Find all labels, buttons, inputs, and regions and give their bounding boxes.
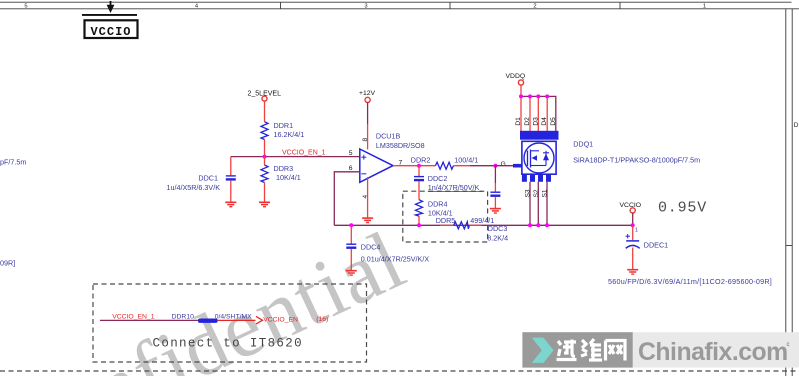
capacitor DDC4 — [346, 225, 429, 270]
svg-text:2: 2 — [533, 4, 536, 10]
wire VCCIO_EN_1 bottom — [100, 319, 198, 321]
svg-text:VDDQ: VDDQ — [506, 73, 526, 80]
source pin wires — [530, 182, 547, 226]
drain pin wires D1-D4 — [521, 96, 547, 131]
svg-text:VCCIO: VCCIO — [620, 202, 642, 209]
svg-text:0.01u/4/X7R/25V/K/X: 0.01u/4/X7R/25V/K/X — [361, 255, 430, 264]
svg-text:VCCIO: VCCIO — [90, 25, 131, 39]
svg-text:Chinafix.com: Chinafix.com — [638, 339, 788, 366]
svg-text:+12V: +12V — [359, 90, 376, 97]
wire pin4 to ground — [367, 177, 369, 218]
svg-text:DDC1: DDC1 — [198, 174, 218, 183]
svg-text:SiRA18DP-T1/PPAKSO-8/1000pF/7.: SiRA18DP-T1/PPAKSO-8/1000pF/7.5m — [573, 156, 700, 165]
ground DDC3 — [490, 209, 501, 213]
junction DDC4 — [349, 223, 353, 227]
node 2_5LEVEL — [248, 90, 282, 101]
svg-text:0/4/SHT/MX: 0/4/SHT/MX — [215, 313, 252, 320]
watermark Confidential — [0, 213, 418, 376]
svg-text:DDC4: DDC4 — [361, 243, 381, 252]
main output net wire — [334, 224, 632, 226]
ground DDC4 — [346, 271, 357, 275]
svg-text:Confidential: Confidential — [0, 213, 418, 376]
svg-text:09R]: 09R] — [0, 259, 15, 268]
resistor DDR4 — [416, 199, 453, 225]
svg-text:3: 3 — [364, 4, 367, 10]
ground op-amp pin4 — [362, 218, 373, 222]
dashed box Connect to IT8620 — [93, 284, 367, 362]
svg-text:DDR2: DDR2 — [411, 156, 431, 165]
svg-text:8: 8 — [362, 138, 369, 142]
svg-text:5: 5 — [349, 150, 353, 157]
svg-text:DDQ1: DDQ1 — [573, 139, 593, 148]
svg-text:DCU1B: DCU1B — [376, 132, 401, 141]
wire pin6 feedback — [334, 172, 360, 226]
svg-text:VCCIO_EN: VCCIO_EN — [263, 317, 298, 324]
char xun — [557, 340, 577, 360]
capacitor DDEC1 — [626, 225, 669, 269]
svg-text:560u/FP/D/6.3V/69/A/11m/[11CO2: 560u/FP/D/6.3V/69/A/11m/[11CO2-695600-09… — [608, 277, 772, 286]
svg-text:D5: D5 — [550, 117, 557, 126]
node G — [495, 161, 513, 168]
pin labels S3 S2 S1 — [525, 189, 549, 197]
wire to gate node — [470, 165, 495, 167]
svg-text:DDC3: DDC3 — [488, 224, 508, 233]
svg-text:1: 1 — [703, 4, 706, 10]
wire DDR1 to junction — [264, 140, 266, 157]
svg-text:DDC2: DDC2 — [428, 174, 448, 183]
ruler numbers — [24, 4, 706, 10]
svg-text:8.2K/4: 8.2K/4 — [487, 234, 508, 243]
svg-text:DDR1: DDR1 — [274, 121, 294, 130]
op-amp DCU1B — [349, 132, 425, 199]
char wang — [606, 341, 626, 361]
svg-text:D3: D3 — [532, 117, 539, 126]
junctions source net — [528, 223, 549, 227]
svg-text:DDR3: DDR3 — [274, 164, 294, 173]
resistor DDR1 — [261, 121, 304, 140]
logo chinafix — [522, 332, 799, 367]
svg-text:D4: D4 — [541, 117, 548, 126]
right frame border — [786, 9, 792, 376]
svg-text:DDR5: DDR5 — [436, 216, 456, 225]
svg-text:D: D — [794, 122, 799, 129]
resistor DDR5 — [436, 216, 495, 229]
svg-text:1: 1 — [635, 228, 638, 234]
svg-text:10K/4/1: 10K/4/1 — [276, 173, 301, 182]
svg-text:D2: D2 — [524, 117, 531, 126]
capacitor DDC2 — [414, 166, 483, 200]
node VCCIO output — [620, 202, 642, 234]
capacitor DDC1 — [166, 157, 235, 202]
capacitor DDC3 — [487, 166, 508, 243]
junction output node — [417, 164, 421, 168]
resistor DDR2 — [411, 156, 478, 170]
ground DDC1 — [225, 202, 236, 206]
svg-text:DDEC1: DDEC1 — [644, 240, 668, 249]
junctions drain bus — [519, 94, 549, 98]
wire output pin7 — [393, 165, 419, 167]
ground DDR3 — [259, 202, 270, 206]
char wei — [581, 339, 602, 360]
port box VCCIO — [82, 14, 138, 39]
svg-text:5: 5 — [24, 4, 27, 10]
svg-text:pF/7.5m: pF/7.5m — [0, 158, 26, 167]
svg-text:1u/4/X5R/6.3V/K: 1u/4/X5R/6.3V/K — [166, 183, 220, 192]
resistor DDR3 — [261, 157, 301, 202]
power terminal +12V — [359, 90, 376, 149]
svg-text:G: G — [501, 161, 506, 168]
power terminal VDDQ — [506, 73, 526, 96]
dashed line bottom — [0, 370, 799, 372]
junction DDR4 — [417, 223, 421, 227]
ground DDEC1 — [627, 270, 638, 274]
svg-text:Connect to IT8620: Connect to IT8620 — [153, 337, 303, 351]
net VCCIO_EN_1 wire — [231, 149, 360, 156]
svg-text:0.95V: 0.95V — [658, 200, 707, 217]
junction gate node — [493, 164, 497, 168]
svg-text:DDR10: DDR10 — [172, 313, 195, 320]
svg-text:6: 6 — [349, 165, 353, 172]
svg-text:DDR4: DDR4 — [428, 199, 448, 208]
svg-text:VCCIO_EN_1: VCCIO_EN_1 — [282, 149, 326, 156]
off-page arrow VCCIO_EN — [256, 316, 328, 324]
ruler top band — [0, 2, 799, 9]
junction on VCCIO_EN_1 — [263, 155, 267, 159]
ruler position arrow — [107, 1, 115, 13]
wire 2_5LEVEL to DDR1 — [264, 101, 266, 122]
wire drain bus — [521, 96, 556, 131]
svg-text:100/4/1: 100/4/1 — [454, 156, 478, 165]
svg-text:VCCIO_EN_1: VCCIO_EN_1 — [112, 313, 155, 320]
svg-text:LM358DR/SO8: LM358DR/SO8 — [376, 141, 425, 150]
svg-text:c: c — [787, 342, 790, 348]
svg-text:D1: D1 — [515, 117, 522, 126]
dashed box DDR4 DDR5 — [403, 191, 488, 242]
pin labels D1-D5 — [515, 117, 557, 126]
resistor DDR10 — [172, 313, 256, 323]
svg-text:(16): (16) — [316, 316, 328, 323]
transistor DDQ1 — [513, 131, 700, 182]
svg-text:16.2K/4/1: 16.2K/4/1 — [274, 130, 305, 139]
